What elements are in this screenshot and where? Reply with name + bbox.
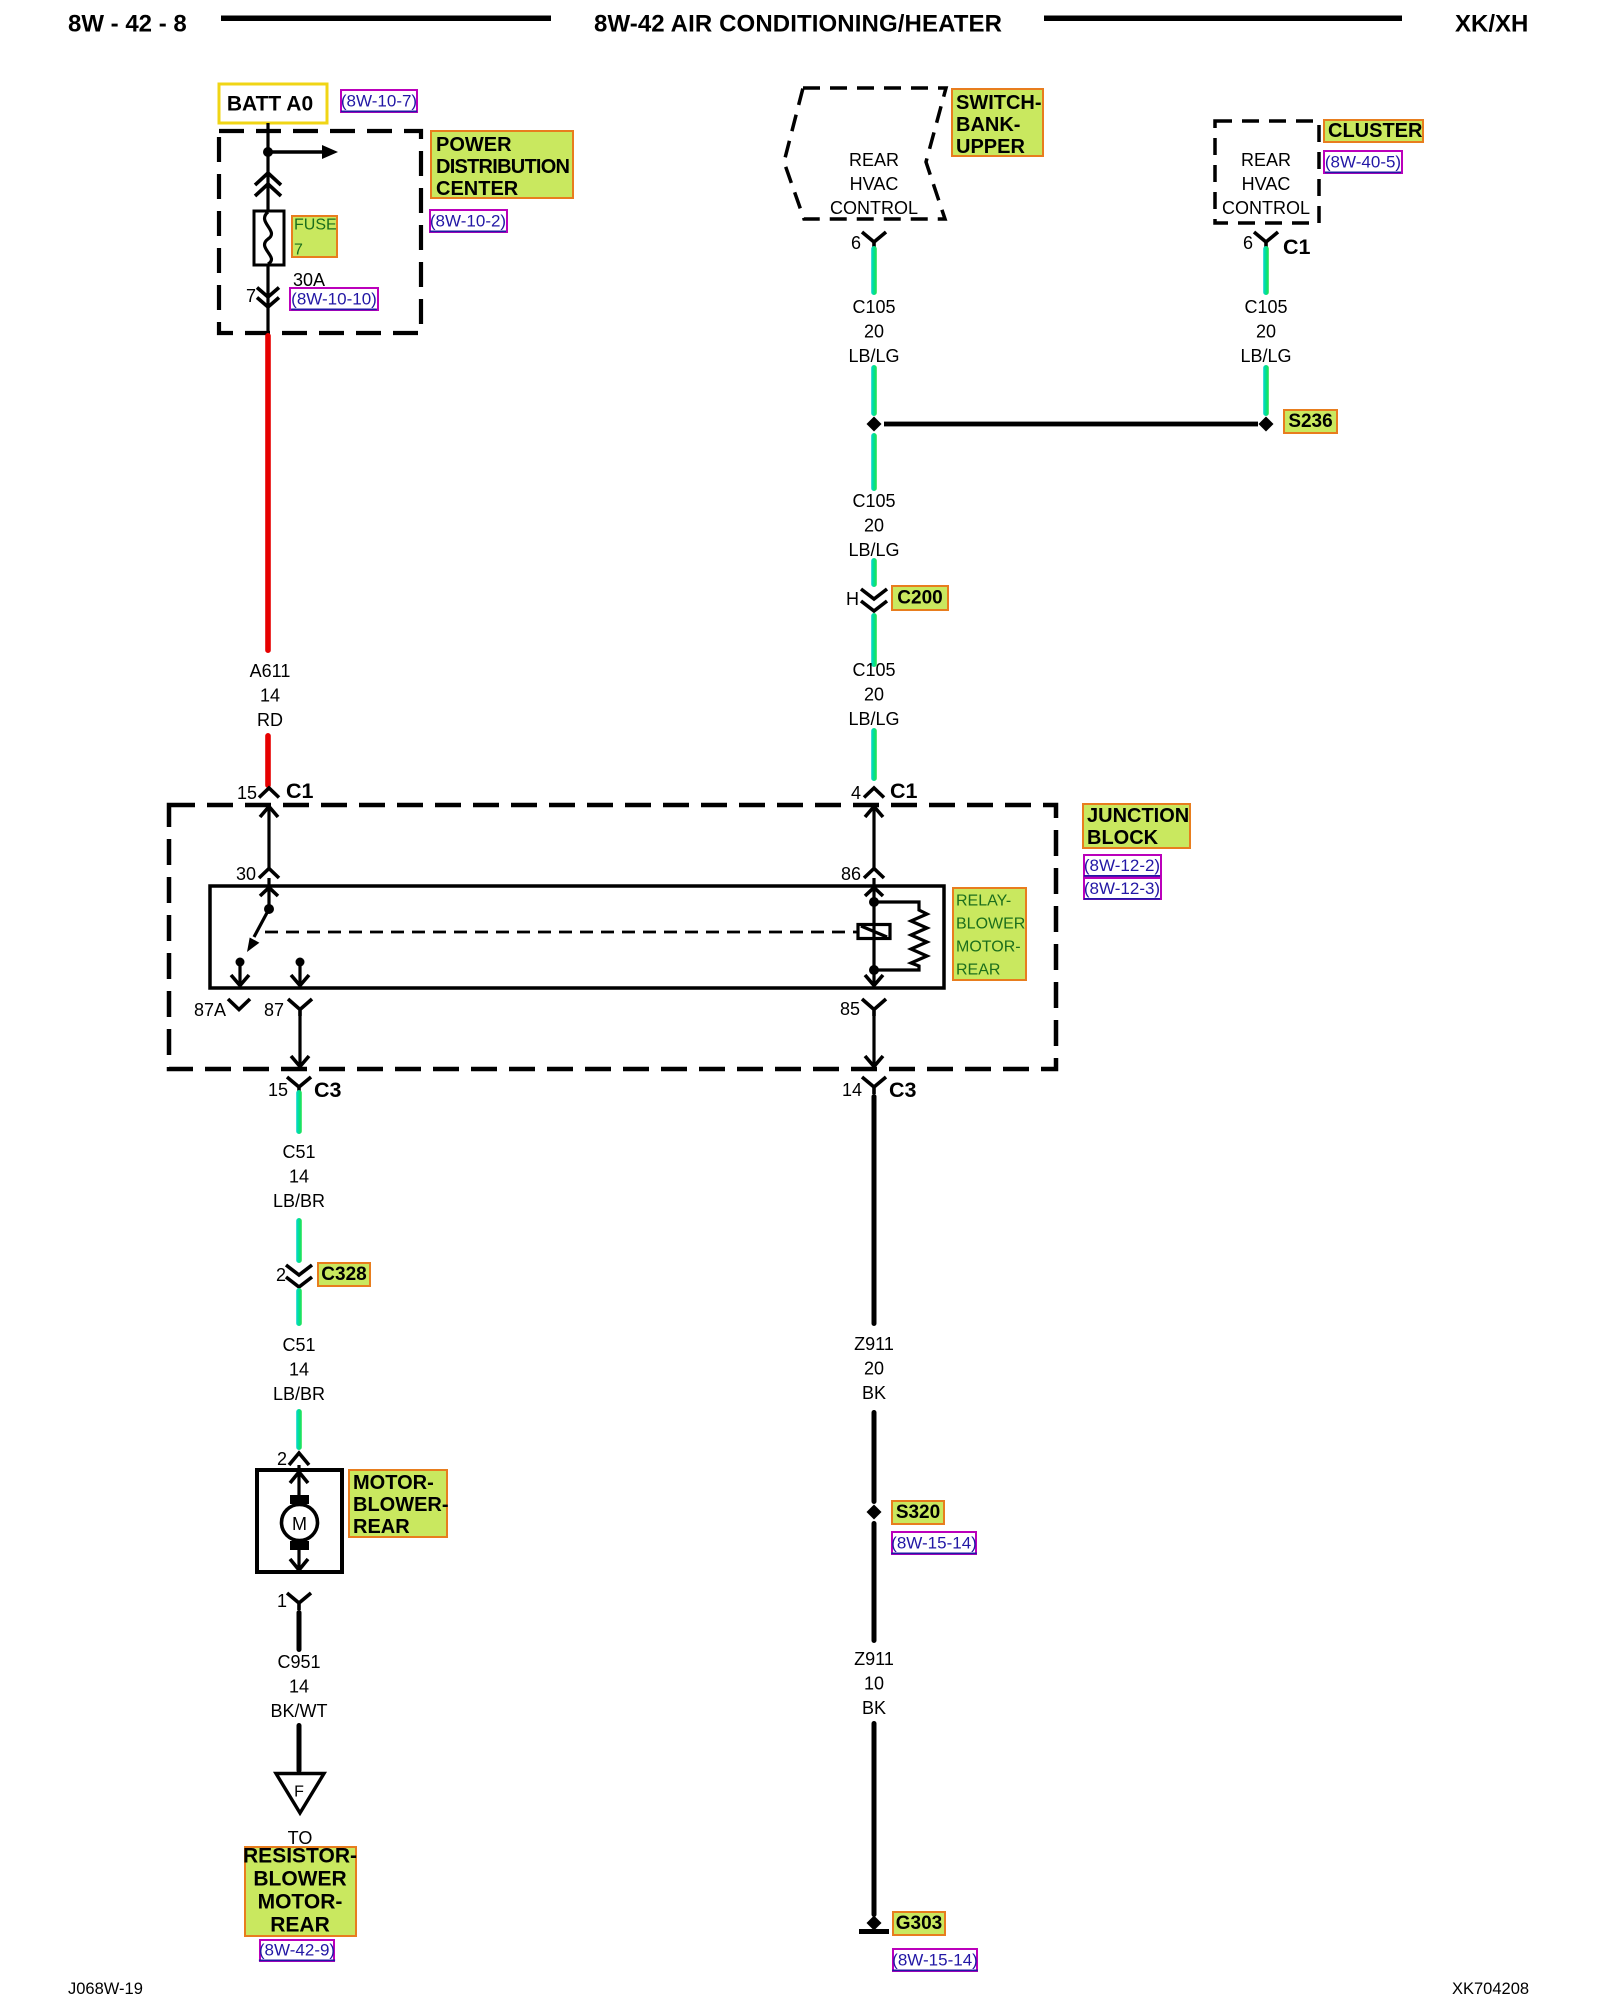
svg-text:C1: C1 (286, 779, 314, 803)
branch arrow right (268, 150, 322, 154)
svg-text:S320: S320 (896, 1502, 940, 1523)
svg-text:C105: C105 (1244, 297, 1287, 317)
svg-text:FUSE: FUSE (294, 217, 337, 234)
relay coil wire from pin 86 (865, 888, 883, 897)
svg-text:87A: 87A (194, 1000, 226, 1020)
double chevron connector up (255, 173, 281, 196)
svg-text:LB/BR: LB/BR (273, 1191, 325, 1211)
wire seg2 (296, 1218, 302, 1263)
svg-text:CONTROL: CONTROL (830, 198, 918, 218)
wire into block pin 86 (872, 806, 875, 869)
svg-text:8W - 42 - 8: 8W - 42 - 8 (68, 11, 187, 38)
svg-text:MOTOR-: MOTOR- (353, 1472, 434, 1494)
link 8W-40-5 (1324, 151, 1402, 173)
label S236 (1284, 410, 1337, 433)
motor M (282, 1505, 318, 1541)
svg-text:H: H (846, 589, 859, 609)
svg-text:4: 4 (851, 783, 861, 803)
svg-text:LB/LG: LB/LG (1240, 346, 1291, 366)
wire seg6 (871, 728, 877, 781)
svg-text:10: 10 (864, 1674, 884, 1694)
svg-text:BK: BK (862, 1383, 886, 1403)
svg-text:C105: C105 (852, 491, 895, 511)
splice S320 (867, 1505, 882, 1520)
svg-text:C3: C3 (314, 1078, 342, 1102)
wire fuse to pin 7 (266, 265, 269, 333)
svg-text:C105: C105 (852, 297, 895, 317)
svg-text:XK/XH: XK/XH (1455, 11, 1528, 38)
svg-text:14: 14 (289, 1167, 309, 1187)
svg-text:2: 2 (277, 1449, 287, 1469)
svg-text:SWITCH-: SWITCH- (956, 92, 1042, 114)
svg-text:M: M (292, 1514, 307, 1534)
svg-text:6: 6 (1243, 233, 1253, 253)
svg-text:15: 15 (268, 1080, 288, 1100)
wire seg5 (871, 613, 877, 667)
relay actuation dashed line (265, 931, 857, 934)
svg-text:8W-42 AIR CONDITIONING/HEATER: 8W-42 AIR CONDITIONING/HEATER (594, 11, 1002, 38)
svg-text:7: 7 (294, 242, 303, 259)
cluster wire C105 20 LB/LG seg1 (1263, 246, 1269, 295)
svg-text:RD: RD (257, 710, 283, 730)
svg-text:POWER: POWER (436, 134, 512, 156)
double chevron connector down pin 7 (257, 288, 279, 308)
label power distribution center (431, 131, 573, 198)
relay coil (858, 925, 890, 939)
fuse F7 body (254, 211, 284, 265)
motor feed arrow (297, 1465, 300, 1502)
svg-text:(8W-10-10): (8W-10-10) (291, 290, 377, 309)
wire seg3 (296, 1288, 302, 1326)
svg-text:LB/LG: LB/LG (848, 709, 899, 729)
link 8W-10-2 (430, 210, 507, 232)
svg-text:REAR: REAR (270, 1914, 330, 1937)
svg-text:87: 87 (264, 1000, 284, 1020)
svg-text:REAR: REAR (956, 962, 1000, 979)
svg-text:1: 1 (277, 1591, 287, 1611)
label S320 (892, 1501, 944, 1524)
power distribution center dashed box (219, 131, 421, 333)
svg-text:BK/WT: BK/WT (271, 1701, 328, 1721)
svg-text:CLUSTER: CLUSTER (1328, 120, 1423, 142)
wire seg4 (871, 558, 877, 587)
svg-text:BK: BK (862, 1698, 886, 1718)
svg-text:7: 7 (246, 286, 256, 306)
wire A611 14 RD red (265, 333, 271, 653)
link 8W-10-10 (290, 288, 378, 310)
svg-text:A611: A611 (250, 661, 291, 681)
svg-text:14: 14 (260, 686, 280, 706)
label CLUSTER (1324, 120, 1423, 142)
wire Z911 20 BK seg1 (872, 1094, 877, 1326)
svg-text:CENTER: CENTER (436, 178, 519, 200)
relay blower motor rear box (210, 886, 944, 988)
svg-text:20: 20 (864, 322, 884, 342)
wire C105 seg3 below splice (871, 433, 877, 491)
svg-text:C51: C51 (282, 1335, 315, 1355)
node junction dot (263, 147, 273, 157)
label RELAY-BLOWER MOTOR-REAR (953, 888, 1026, 980)
svg-text:BLOWER: BLOWER (253, 1868, 346, 1891)
svg-text:C1: C1 (1283, 235, 1311, 259)
wire 85 to connector C3 (872, 1016, 875, 1066)
relay common contact from pin 30 (260, 888, 278, 897)
motor commutator bottom (290, 1541, 309, 1550)
splice S236 left diamond (867, 417, 882, 432)
svg-text:Z911: Z911 (854, 1334, 894, 1354)
link 8W-10-7 (341, 90, 417, 112)
wire seg2 to splice (871, 365, 877, 416)
svg-text:J068W-19: J068W-19 (68, 1980, 143, 1998)
svg-text:20: 20 (864, 516, 884, 536)
svg-text:REAR: REAR (353, 1516, 410, 1538)
wire to off-page connector (297, 1723, 302, 1773)
svg-text:85: 85 (840, 999, 860, 1019)
svg-text:14: 14 (289, 1360, 309, 1380)
off-page connector F (276, 1774, 324, 1814)
svg-text:20: 20 (864, 685, 884, 705)
svg-text:(8W-15-14): (8W-15-14) (892, 1951, 978, 1970)
svg-text:(8W-10-7): (8W-10-7) (341, 92, 417, 111)
wire inside PDC (266, 123, 269, 211)
svg-text:C105: C105 (852, 660, 895, 680)
svg-text:MOTOR-: MOTOR- (956, 939, 1021, 956)
label C328 (318, 1263, 370, 1286)
svg-text:(8W-40-5): (8W-40-5) (1325, 153, 1401, 172)
wire seg4 (296, 1409, 302, 1450)
header rule right (1044, 16, 1402, 22)
svg-text:LB/LG: LB/LG (848, 346, 899, 366)
label G303 (893, 1912, 945, 1935)
svg-text:JUNCTION: JUNCTION (1087, 805, 1189, 827)
switch bank upper dashed outline (784, 88, 946, 219)
wire seg2 (872, 1410, 877, 1504)
relay throw 87 (296, 958, 305, 967)
wire C951 14 BK/WT (297, 1610, 302, 1652)
label FUSE 7 (292, 216, 337, 257)
svg-text:(8W-10-2): (8W-10-2) (430, 212, 506, 231)
svg-text:HVAC: HVAC (1242, 174, 1291, 194)
svg-text:2: 2 (276, 1265, 286, 1285)
svg-text:S236: S236 (1288, 411, 1332, 432)
motor commutator top (290, 1495, 309, 1504)
svg-text:(8W-42-9): (8W-42-9) (259, 1941, 335, 1960)
wire into block pin 30 (267, 806, 270, 869)
svg-text:C951: C951 (277, 1652, 320, 1672)
wire C105 20 LB/LG seg1 (871, 246, 877, 295)
svg-text:BANK-: BANK- (956, 114, 1020, 136)
link 8W-12-2 (1084, 855, 1161, 876)
svg-text:G303: G303 (896, 1913, 942, 1934)
link 8W-15-14 ground (893, 1949, 977, 1971)
ground G303 (867, 1916, 882, 1931)
label JUNCTION BLOCK (1083, 804, 1190, 848)
svg-text:20: 20 (1256, 322, 1276, 342)
svg-text:HVAC: HVAC (850, 174, 899, 194)
svg-text:C200: C200 (897, 588, 942, 609)
svg-text:30: 30 (236, 864, 256, 884)
battery feed box BATT A0 (219, 84, 327, 123)
relay movable contact arm (254, 909, 269, 937)
splice S236 bus line (884, 422, 1258, 427)
svg-text:BATT A0: BATT A0 (227, 93, 313, 116)
svg-text:CONTROL: CONTROL (1222, 198, 1310, 218)
wire C51 14 LB/BR seg1 (296, 1090, 302, 1134)
label MOTOR-BLOWER-REAR (349, 1470, 447, 1537)
svg-text:(8W-12-3): (8W-12-3) (1084, 879, 1160, 898)
svg-text:LB/BR: LB/BR (273, 1384, 325, 1404)
svg-text:BLOWER: BLOWER (956, 916, 1025, 933)
svg-text:Z911: Z911 (854, 1649, 894, 1669)
svg-text:(8W-12-2): (8W-12-2) (1084, 856, 1160, 875)
link 8W-15-14 (892, 1532, 976, 1554)
svg-text:C328: C328 (321, 1264, 366, 1285)
svg-text:MOTOR-: MOTOR- (258, 1891, 343, 1914)
junction block dashed box (169, 805, 1056, 1069)
label RESISTOR-BLOWER MOTOR-REAR (245, 1847, 356, 1936)
relay throw 87A (236, 958, 245, 967)
link 8W-12-3 (1084, 878, 1161, 899)
svg-text:86: 86 (841, 864, 861, 884)
cluster wire seg2 (1263, 365, 1269, 416)
svg-text:(8W-15-14): (8W-15-14) (891, 1534, 977, 1553)
svg-text:BLOCK: BLOCK (1087, 827, 1159, 849)
svg-text:C51: C51 (282, 1142, 315, 1162)
header rule left (221, 16, 551, 22)
svg-text:RELAY-: RELAY- (956, 893, 1011, 910)
label SWITCH-BANK-UPPER (952, 89, 1043, 156)
svg-text:REAR: REAR (1241, 150, 1291, 170)
relay suppression resistor (874, 902, 927, 970)
motor blower rear box (257, 1470, 342, 1572)
wire to ground (872, 1721, 877, 1917)
svg-text:C1: C1 (890, 779, 918, 803)
cluster dashed box (1215, 121, 1319, 223)
svg-text:XK704208: XK704208 (1452, 1980, 1529, 1998)
svg-text:LB/LG: LB/LG (848, 540, 899, 560)
svg-text:F: F (294, 1784, 304, 1801)
svg-text:15: 15 (237, 783, 257, 803)
svg-text:14: 14 (289, 1677, 309, 1697)
wire Z911 10 BK (872, 1521, 877, 1643)
svg-text:C3: C3 (889, 1078, 917, 1102)
label C200 (892, 586, 948, 610)
link 8W-42-9 (260, 1940, 334, 1961)
splice S236 right diamond (1259, 417, 1274, 432)
svg-text:14: 14 (842, 1080, 862, 1100)
wire 87 to connector C3 (298, 1016, 301, 1066)
svg-text:20: 20 (864, 1359, 884, 1379)
motor return arrow (297, 1549, 300, 1570)
svg-text:UPPER: UPPER (956, 136, 1025, 158)
svg-text:REAR: REAR (849, 150, 899, 170)
svg-text:RESISTOR-: RESISTOR- (243, 1845, 357, 1868)
svg-text:6: 6 (851, 233, 861, 253)
svg-text:DISTRIBUTION: DISTRIBUTION (436, 156, 570, 178)
svg-text:BLOWER-: BLOWER- (353, 1494, 449, 1516)
